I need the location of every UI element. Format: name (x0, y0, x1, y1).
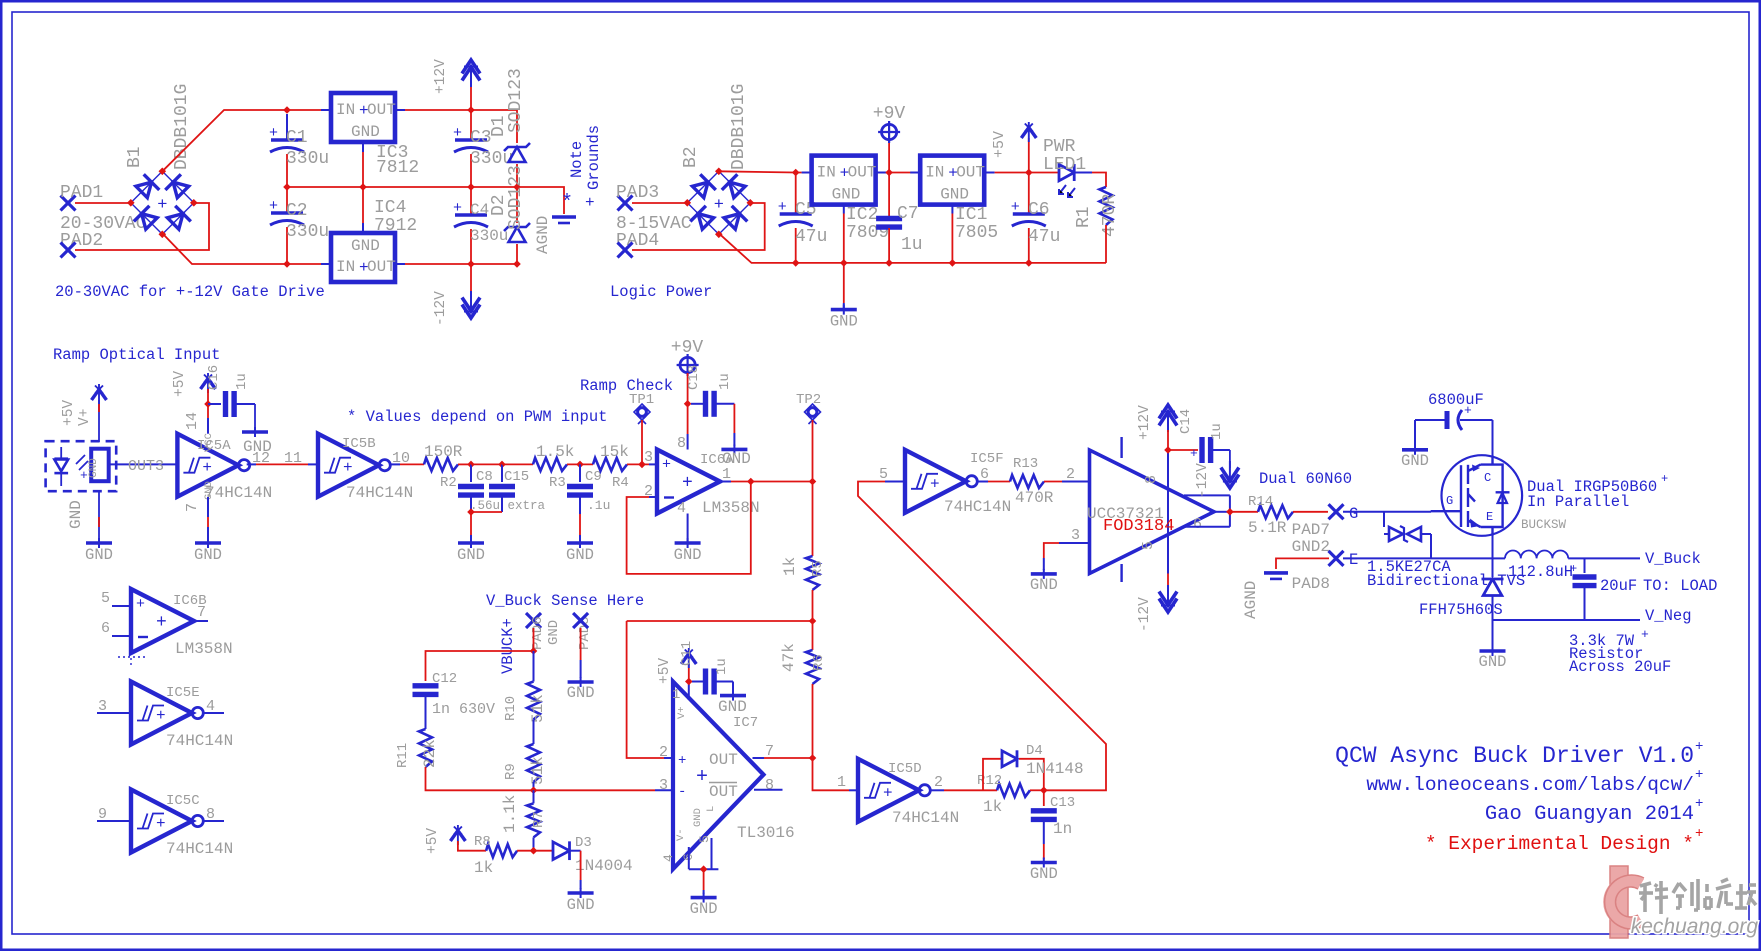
gate driver IC UCC37321 (1090, 450, 1215, 574)
bridge rectifier B1 (131, 171, 194, 234)
ground AGND left (552, 215, 576, 219)
resistor R7 1.1k (533, 790, 535, 803)
node R12-C13 junction (1040, 787, 1048, 795)
node R2-C8 junction (467, 461, 475, 469)
svg-text:* Values depend on PWM input: * Values depend on PWM input (347, 408, 607, 426)
svg-text:DBDB101G: DBDB101G (172, 84, 192, 170)
wire IC5F out to R13 (978, 481, 988, 483)
svg-text:LM358N: LM358N (175, 640, 233, 658)
power +12V arrow (470, 85, 472, 110)
svg-text:74HC14N: 74HC14N (944, 498, 1011, 516)
svg-text:SOD123: SOD123 (506, 165, 526, 230)
svg-text:1.1k: 1.1k (501, 795, 519, 833)
svg-text:+: + (453, 200, 462, 217)
wire D3 gnd (580, 851, 582, 880)
svg-text:8: 8 (206, 806, 215, 823)
svg-text:IC5F: IC5F (970, 451, 1004, 467)
node TL3016 vcc junction (685, 678, 693, 686)
power +5V arrow TL3016 (681, 654, 696, 665)
svg-text:+5V: +5V (425, 828, 441, 854)
svg-text:1: 1 (722, 466, 731, 483)
svg-text:+: + (1661, 472, 1668, 486)
wire OUT3 (109, 463, 178, 465)
svg-text:R13: R13 (1013, 456, 1038, 472)
svg-text:8: 8 (677, 435, 686, 452)
wire C9 gnd (579, 514, 581, 535)
wire TP1 down (641, 420, 643, 464)
svg-text:330u: 330u (286, 149, 329, 169)
svg-text:PAD6: PAD6 (530, 616, 546, 650)
bridge rectifier B2 (687, 171, 750, 234)
capacitor C11 1u (692, 681, 703, 683)
svg-text:1N4148: 1N4148 (1026, 760, 1084, 778)
svg-text:GND: GND (67, 500, 85, 529)
svg-text:SOD123: SOD123 (506, 68, 526, 133)
wire bridge B2 + out (719, 171, 802, 172)
svg-text:C16: C16 (206, 365, 222, 390)
svg-text:GND: GND (830, 313, 858, 331)
svg-text:GND: GND (832, 186, 861, 204)
svg-text:L: L (705, 806, 717, 812)
svg-text:8: 8 (765, 777, 774, 794)
wire to IC3 IN (287, 109, 321, 111)
svg-text:IC4: IC4 (374, 198, 406, 218)
wire sense line to pin3 (534, 789, 656, 791)
svg-text:+: + (157, 196, 167, 215)
svg-text:C4: C4 (470, 201, 489, 219)
svg-text:+: + (156, 707, 166, 725)
node C9 junction (576, 461, 584, 469)
svg-text:47u: 47u (1028, 227, 1060, 247)
wire TP2 down (812, 420, 814, 482)
wire R8 to junction (517, 850, 533, 852)
optical receiver module (46, 441, 117, 491)
wire IC2 out to IC1 in (876, 172, 886, 174)
wire emitter line (1343, 557, 1493, 559)
node junction C1 top (283, 106, 291, 114)
wire UCC pin3 gnd (1059, 542, 1090, 544)
svg-text:TL3016: TL3016 (737, 824, 795, 842)
svg-text:R8: R8 (474, 834, 491, 850)
svg-text:+9V: +9V (671, 338, 704, 358)
ground UCC GND (1031, 572, 1057, 576)
node output junction (747, 478, 755, 486)
wire R6 to out junction (812, 684, 814, 758)
power +9V symbol (888, 141, 890, 173)
svg-text:In Parallel: In Parallel (1527, 493, 1629, 511)
svg-text:V-: V- (675, 828, 687, 841)
svg-text:1n 630V: 1n 630V (432, 701, 495, 718)
svg-text:.56u extra: .56u extra (470, 499, 546, 513)
svg-text:+5V: +5V (657, 658, 673, 684)
pad PAD3 (618, 196, 633, 211)
voltage regulator IC2 7809 (812, 156, 876, 205)
svg-text:R14: R14 (1248, 494, 1273, 510)
svg-text:+: + (883, 784, 893, 802)
svg-text:GND: GND (567, 896, 595, 914)
svg-text:R9: R9 (503, 763, 519, 780)
capacitor C13 1n (1043, 790, 1045, 806)
svg-text:PAD1: PAD1 (60, 183, 103, 203)
capacitor C9 (579, 464, 581, 482)
svg-text:6: 6 (1193, 516, 1202, 533)
svg-text:G: G (1349, 505, 1358, 523)
svg-text:22k: 22k (421, 739, 439, 768)
svg-text:D3: D3 (575, 835, 592, 851)
svg-text:GND: GND (567, 684, 595, 702)
svg-text:R6: R6 (811, 654, 827, 671)
diode D3 1N4004 (553, 842, 570, 860)
ground IC6A GND (675, 541, 701, 545)
svg-text:C8: C8 (476, 469, 493, 485)
capacitor C7 1u (888, 173, 890, 218)
wire R11 to sense line (426, 767, 534, 790)
ground C9 GND (567, 541, 593, 545)
svg-text:7: 7 (184, 503, 201, 512)
svg-text:112.8uH: 112.8uH (1508, 563, 1573, 581)
svg-text:1k: 1k (983, 798, 1002, 816)
svg-text:OUT: OUT (956, 164, 985, 182)
capacitor C8 (470, 464, 472, 482)
wire bridge B1 + output (162, 110, 287, 171)
ground C13 GND (1031, 861, 1057, 865)
node divider junction (809, 617, 817, 625)
svg-text:PAD3: PAD3 (616, 183, 659, 203)
svg-text:74HC14N: 74HC14N (205, 484, 272, 502)
svg-text:Bidirectional TVS: Bidirectional TVS (1367, 572, 1525, 590)
wire bridge B1 - output (162, 233, 287, 264)
capacitor C5 (795, 173, 797, 215)
svg-text:Logic Power: Logic Power (610, 283, 712, 301)
node TL3016 gnd junction (700, 865, 708, 873)
svg-text:7812: 7812 (376, 158, 419, 178)
wire TL3016 pin1 vcc (688, 682, 690, 701)
wire IC1 out to +5V (985, 172, 995, 174)
wire R1 to gnd rail (1105, 225, 1107, 263)
wire junction to D3 (534, 850, 553, 852)
svg-text:GND: GND (690, 900, 718, 918)
svg-text:GND: GND (88, 458, 100, 478)
svg-text:6800uF: 6800uF (1428, 391, 1484, 409)
pad PAD1 (61, 196, 76, 211)
igbt module dual IRGP50B60 (1442, 455, 1523, 536)
svg-text:OUT3: OUT3 (128, 458, 164, 475)
svg-text:C6: C6 (1028, 200, 1050, 220)
node IC5A vcc junction (204, 400, 212, 408)
svg-text:+: + (156, 815, 166, 833)
power +5V arrow R8 (450, 831, 465, 842)
svg-text:FFH75H60S: FFH75H60S (1419, 601, 1503, 619)
svg-text:14: 14 (184, 412, 201, 430)
node -12V junction (467, 260, 475, 268)
wire IC5B out (391, 463, 400, 465)
wire C13 gnd (1043, 844, 1045, 859)
wire R2 to junction (458, 463, 471, 465)
wire IC5A out to IC5B (247, 463, 256, 465)
wire IC4 OUT to -12V (395, 263, 405, 265)
svg-text:470R: 470R (1015, 489, 1054, 507)
wire LED to R1 (1074, 172, 1092, 174)
diode D1 SOD123 (471, 110, 517, 143)
wire optical gnd (98, 491, 100, 543)
svg-text:150R: 150R (424, 443, 463, 461)
pad PAD4 (618, 243, 633, 258)
wire to IC4 IN (287, 263, 321, 265)
voltage regulator IC3 7812 (331, 93, 395, 142)
watermark logo (1605, 866, 1644, 938)
svg-text:Note: Note (568, 141, 586, 178)
capacitor C1 (286, 114, 288, 140)
svg-text:+12V: +12V (1137, 405, 1153, 440)
capacitor C6 (1028, 173, 1030, 215)
svg-text:AGND: AGND (534, 216, 552, 254)
wire PAD8 to AGND (1276, 558, 1329, 569)
svg-text:Gao Guangyan 2014: Gao Guangyan 2014 (1485, 803, 1694, 826)
node +9V junction (885, 169, 893, 177)
resistor R14 5.1R (1258, 505, 1293, 518)
wire PAD5 gnd (580, 628, 582, 660)
svg-text:+5V: +5V (991, 131, 1008, 158)
power +12V arrow UCC (1159, 405, 1177, 426)
wire VBUCK node (533, 628, 535, 651)
svg-text:www.loneoceans.com/labs/qcw/: www.loneoceans.com/labs/qcw/ (1366, 774, 1694, 796)
svg-text:+: + (136, 596, 145, 613)
svg-text:+12V: +12V (433, 59, 449, 94)
diode FFH75H60S (1482, 578, 1504, 581)
wire IC5A pin7 gnd (207, 497, 209, 517)
svg-text:GND: GND (692, 808, 704, 827)
testpoint TP2 (805, 404, 821, 420)
svg-text:51k: 51k (529, 694, 547, 723)
wire IC6A output (721, 481, 732, 483)
svg-text:1N4004: 1N4004 (575, 857, 633, 875)
svg-text:-12V: -12V (1137, 597, 1153, 632)
svg-text:1k: 1k (781, 557, 799, 576)
wire IC3 OUT to +12V (395, 109, 405, 111)
power +5V arrow (1028, 138, 1030, 173)
power -12V arrow UCC (1167, 574, 1169, 593)
svg-text:GND: GND (566, 546, 594, 564)
svg-text:PWR: PWR (1043, 137, 1076, 157)
svg-text:E: E (1486, 510, 1493, 524)
svg-text:20-30VAC for +-12V Gate Drive: 20-30VAC for +-12V Gate Drive (55, 283, 325, 301)
svg-text:74HC14N: 74HC14N (346, 484, 413, 502)
svg-text:* Experimental Design *: * Experimental Design * (1425, 833, 1694, 855)
svg-text:IN: IN (336, 258, 355, 276)
wire gate (1343, 511, 1431, 513)
ground 6800uF GND (1402, 448, 1428, 452)
svg-text:R2: R2 (440, 475, 457, 491)
svg-text:GND: GND (1401, 452, 1429, 470)
svg-text:3: 3 (644, 449, 653, 466)
inverter IC5E 74HC14N (131, 682, 192, 745)
wire gnd stem (843, 263, 845, 303)
svg-text:+: + (1695, 826, 1703, 842)
resistor R9 51k (527, 744, 540, 782)
svg-text:+: + (696, 766, 708, 789)
ground TL3016 GND (691, 896, 717, 900)
svg-text:GND: GND (457, 546, 485, 564)
resistor R2 150R (424, 458, 458, 471)
svg-text:GND: GND (940, 186, 969, 204)
power +9V IC6A (680, 357, 695, 372)
svg-text:PAD7: PAD7 (1292, 521, 1330, 539)
wire emitter to vbuck rail (1492, 536, 1494, 578)
node emitter-inductor (1493, 557, 1506, 559)
svg-text:GND: GND (546, 620, 562, 645)
power +5V arrow IC5A (201, 379, 216, 390)
capacitor C12 1n 630V (413, 683, 439, 688)
svg-text:V+: V+ (77, 409, 93, 426)
wire feedback diagonal (858, 482, 1106, 791)
capacitor C4 (470, 187, 472, 215)
wire mid ground rail (287, 187, 564, 214)
wire TL3016 pin8 stub (754, 789, 783, 791)
svg-text:74HC14N: 74HC14N (166, 840, 233, 858)
svg-text:74HC14N: 74HC14N (892, 809, 959, 827)
capacitor C16 1u (208, 403, 221, 405)
svg-text:V_Buck: V_Buck (1645, 550, 1701, 568)
svg-text:+: + (1695, 767, 1703, 783)
svg-text:2: 2 (934, 774, 943, 791)
wire TL3016 gnd stem (703, 869, 705, 890)
svg-text:DBDB101G: DBDB101G (729, 84, 749, 170)
wire R4 to opamp (627, 463, 649, 465)
ground C16 GND (242, 430, 268, 434)
diode D2 SOD123 (516, 187, 518, 223)
svg-text:+: + (156, 613, 167, 633)
wire R7 bottom (533, 837, 535, 850)
node IC6A pin3 junction (638, 461, 646, 469)
svg-text:5: 5 (101, 590, 110, 607)
svg-text:5: 5 (697, 835, 712, 843)
svg-text:V+: V+ (676, 706, 688, 719)
svg-text:IC5C: IC5C (166, 793, 200, 809)
svg-text:C15: C15 (504, 469, 529, 485)
svg-text:kechuang.org: kechuang.org (1631, 915, 1759, 938)
svg-text:+: + (1464, 403, 1472, 418)
svg-text:+: + (80, 468, 88, 483)
svg-text:R7: R7 (531, 811, 547, 828)
ground C8 GND (458, 541, 484, 545)
svg-text:3: 3 (659, 777, 668, 794)
node rail junctions (283, 183, 291, 191)
resistor R5 1k (806, 556, 819, 590)
node VBUCK junction (530, 647, 538, 655)
voltage regulator IC1 7805 (920, 156, 984, 205)
svg-text:4: 4 (206, 698, 215, 715)
svg-text:IC5B: IC5B (342, 436, 376, 452)
op-amp IC6A LM358N (657, 450, 720, 514)
inverter IC5F 74HC14N (905, 450, 966, 513)
capacitor C3 (470, 110, 472, 140)
resistor R8 1k (486, 844, 517, 857)
svg-text:C14: C14 (1178, 409, 1194, 434)
node C5 top junction (792, 169, 800, 177)
wire PAD4 to bridge B2 (632, 203, 765, 250)
svg-text:+: + (1570, 562, 1577, 576)
svg-text:2: 2 (1066, 466, 1075, 483)
svg-text:C7: C7 (897, 204, 919, 224)
op-amp IC6B LM358N (131, 589, 194, 653)
svg-text:OUT: OUT (367, 101, 396, 119)
node TP2 junction (809, 478, 817, 486)
node C2 bottom junction (283, 260, 291, 268)
svg-text:IC5E: IC5E (166, 685, 200, 701)
svg-text:*: * (561, 192, 573, 215)
svg-text:47u: 47u (795, 227, 827, 247)
svg-text:1u: 1u (717, 373, 733, 390)
resistor R13 470R (1010, 475, 1044, 488)
capacitor C15 (501, 464, 503, 482)
svg-text:8: 8 (1143, 475, 1160, 484)
node R7-R8-D3 junction (530, 847, 538, 855)
node +12V junction (467, 106, 475, 114)
svg-text:-12V: -12V (1195, 463, 1211, 498)
svg-text:E: E (1349, 551, 1358, 569)
wire VBUCK to C12 (426, 651, 534, 681)
svg-text:GND: GND (674, 546, 702, 564)
svg-text:330u: 330u (470, 227, 508, 245)
svg-text:C13: C13 (1050, 795, 1075, 811)
svg-text:3: 3 (98, 698, 107, 715)
svg-text:+: + (1011, 199, 1020, 216)
svg-text:OUT: OUT (709, 783, 738, 801)
svg-text:6: 6 (980, 466, 989, 483)
svg-text:47k: 47k (780, 643, 798, 672)
svg-text:C11: C11 (679, 641, 695, 666)
wire IC6A feedback (649, 496, 657, 498)
resistor R1 470R (1100, 187, 1113, 225)
pad PAD6 VBUCK+ (526, 613, 541, 628)
svg-text:51k: 51k (529, 756, 547, 785)
svg-text:R12: R12 (977, 773, 1002, 789)
svg-text:7805: 7805 (955, 223, 998, 243)
wire inductor to V_Buck (1568, 557, 1640, 559)
node +9V cap junction (684, 400, 692, 408)
svg-text:3: 3 (1071, 527, 1080, 544)
wire PAD2 to bridge (75, 203, 209, 250)
power +5V arrow optical (92, 390, 107, 401)
svg-text:1n: 1n (1053, 820, 1072, 838)
svg-text:+: + (662, 457, 671, 474)
wire R14 to PAD7 (1293, 511, 1328, 513)
svg-text:Grounds: Grounds (585, 125, 603, 190)
svg-text:GND: GND (1479, 653, 1507, 671)
svg-text:IC1: IC1 (955, 205, 987, 225)
svg-text:1u: 1u (714, 658, 730, 675)
inverter IC5B 74HC14N (318, 434, 379, 497)
ground logic GND (831, 308, 857, 312)
wire R3 to C9 (567, 463, 593, 465)
wire IC5D out to R12 (930, 789, 944, 791)
svg-text:C9: C9 (585, 469, 602, 485)
watermark chinese text (1643, 882, 1749, 914)
inverter IC5D 74HC14N (858, 759, 919, 822)
svg-text:Ramp Check: Ramp Check (580, 377, 673, 395)
wire IC3 GND pin (362, 142, 364, 152)
svg-text:5: 5 (1140, 541, 1157, 550)
wire PAD3 to bridge B2 (632, 202, 687, 204)
svg-text:330u: 330u (286, 222, 329, 242)
svg-text:TP2: TP2 (796, 392, 821, 408)
svg-text:+: + (930, 475, 940, 493)
pad PAD7 gate (1329, 504, 1344, 519)
ground C18 GND (721, 448, 747, 452)
wire V_Neg rail (1493, 619, 1641, 621)
svg-text:V_Neg: V_Neg (1645, 607, 1692, 625)
resistor R6 47k (812, 621, 814, 650)
